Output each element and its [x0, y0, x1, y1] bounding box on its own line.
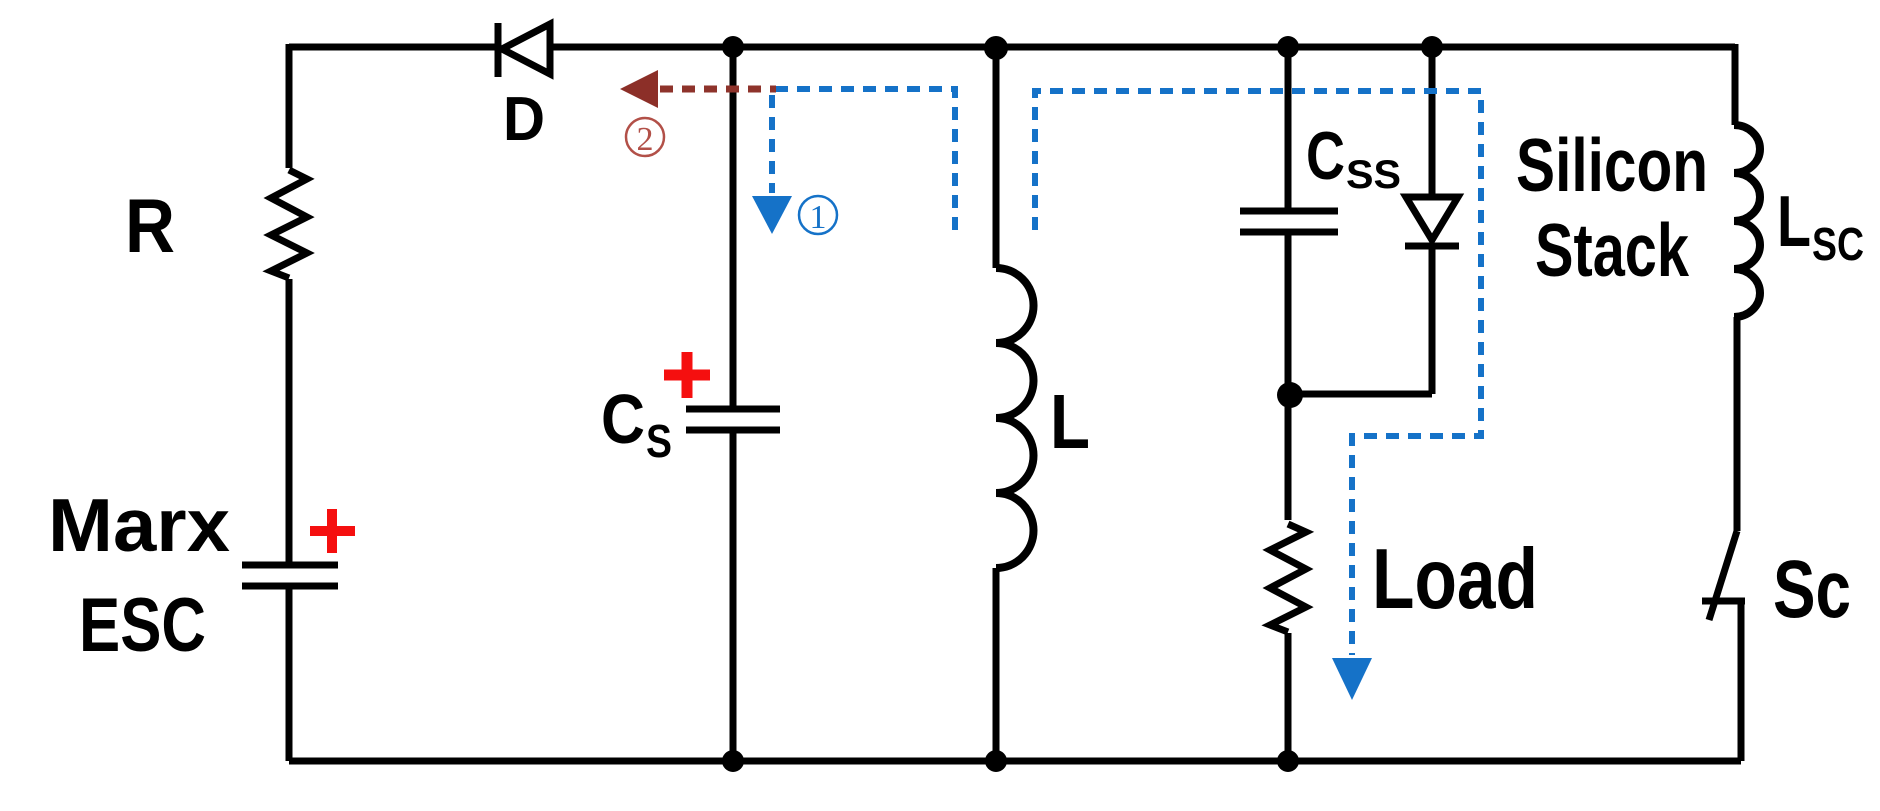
dashed path 2 brown [660, 86, 776, 93]
diode silicon-stack cathode bar [1405, 243, 1459, 250]
svg-text:2: 2 [637, 121, 654, 158]
svg-text:R: R [125, 184, 175, 269]
dashed path 1 blue left loop [772, 89, 955, 230]
plus sign Cs [664, 352, 710, 398]
svg-text:SS: SS [1346, 153, 1401, 197]
capacitor Css plates [1240, 208, 1338, 215]
svg-text:SC: SC [1812, 218, 1864, 270]
wire stack diode branch upper [1429, 47, 1436, 196]
wire stack diode to junction horizontal [1288, 391, 1432, 398]
wire load to bottom [1285, 633, 1292, 761]
inductor Lsc coil [1734, 125, 1760, 317]
label circled 2 [626, 118, 664, 158]
diode D cathode bar [495, 23, 502, 77]
diode D triangle [502, 24, 550, 74]
svg-text:C: C [1306, 118, 1345, 194]
arrow brown left [620, 70, 658, 108]
wire L branch lower [993, 568, 1000, 761]
wire left rail lower [286, 586, 293, 761]
inductor L coil [996, 268, 1034, 568]
label circled 1 [799, 196, 837, 236]
wire top horizontal after diode [550, 44, 1735, 51]
wire stack diode branch lower [1429, 246, 1436, 394]
resistor Load [1270, 524, 1306, 632]
diode silicon-stack triangle [1406, 197, 1458, 240]
wire right rail lower [1738, 601, 1745, 761]
capacitor Cs plates [686, 406, 780, 413]
wire right rail middle [1734, 317, 1741, 531]
wire right rail top [1732, 44, 1739, 125]
svg-text:1: 1 [810, 199, 827, 236]
svg-text:Marx: Marx [48, 483, 230, 567]
wire left rail middle [286, 279, 293, 565]
svg-text:C: C [601, 380, 645, 458]
node bottom Cs [722, 750, 744, 772]
switch Sc blade [1709, 531, 1737, 620]
wire Css branch upper [1285, 47, 1292, 211]
svg-text:L: L [1777, 182, 1811, 262]
arrow blue 1 down [752, 196, 792, 234]
node bottom load [1277, 750, 1299, 772]
Marx ESC source plates [242, 562, 338, 569]
wire Cs branch upper [730, 47, 737, 409]
wire Cs branch lower [730, 430, 737, 761]
arrow blue load down [1332, 658, 1372, 700]
svg-text:Silicon: Silicon [1516, 123, 1708, 207]
svg-text:Stack: Stack [1535, 208, 1689, 292]
wire Css branch lower to junction [1285, 232, 1292, 395]
svg-text:Sc: Sc [1773, 544, 1851, 635]
svg-text:Load: Load [1372, 532, 1538, 627]
wire top-left horizontal [289, 44, 497, 51]
wire bottom horizontal [289, 758, 1741, 765]
svg-text:L: L [1050, 379, 1090, 465]
svg-text:D: D [503, 85, 545, 154]
wire junction to load [1285, 395, 1292, 520]
node bottom L [985, 750, 1007, 772]
switch Sc contact bar [1702, 598, 1745, 605]
plus sign Marx [310, 509, 355, 553]
node top L [984, 36, 1008, 60]
dashed path blue right loop [1035, 91, 1481, 655]
wire left rail upper [286, 44, 293, 168]
svg-text:ESC: ESC [79, 583, 206, 668]
node junction Css diode [1277, 382, 1303, 408]
node top Cs [722, 36, 744, 58]
node top stack diode [1421, 36, 1443, 58]
node top Css [1277, 36, 1299, 58]
resistor R [271, 170, 307, 278]
wire L branch upper [993, 47, 1000, 268]
svg-text:S: S [646, 415, 672, 467]
